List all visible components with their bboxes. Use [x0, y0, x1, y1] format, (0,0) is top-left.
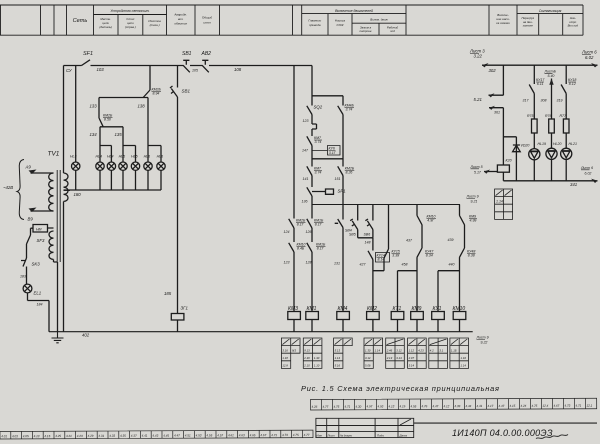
wire EL1 bottom [28, 293, 50, 332]
svg-text:4.55: 4.55 [206, 433, 212, 437]
contact SQ2 [307, 106, 312, 115]
svg-text:180: 180 [74, 192, 82, 197]
svg-text:4.26: 4.26 [311, 405, 317, 409]
resistor R75 [532, 119, 538, 133]
svg-text:HL20: HL20 [553, 142, 562, 146]
svg-text:1.30: 1.30 [365, 349, 371, 353]
svg-text:3.22: 3.22 [474, 54, 483, 59]
wire vertical B [312, 66, 317, 312]
wire H4 [312, 158, 343, 160]
svg-text:Сеть: Сеть [73, 18, 88, 24]
svg-text:1.1Б: 1.1Б [451, 349, 457, 353]
svg-text:2.46: 2.46 [386, 349, 393, 353]
svg-text:4.44: 4.44 [465, 404, 471, 408]
svg-text:439: 439 [448, 238, 454, 242]
LED branch 3 [565, 65, 567, 181]
wire 5.21 stub [489, 65, 504, 95]
svg-text:308: 308 [541, 99, 547, 103]
svg-text:9.21: 9.21 [471, 199, 478, 203]
svg-text:5.06: 5.06 [365, 364, 371, 368]
svg-text:КМ1: КМ1 [307, 306, 317, 312]
diode VD20 [503, 137, 516, 181]
wire KT1 link [398, 271, 418, 312]
svg-text:136: 136 [302, 200, 308, 204]
svg-text:341: 341 [570, 182, 578, 187]
svg-text:4.15: 4.15 [44, 434, 50, 438]
wire number strip left [0, 430, 313, 439]
lamp HL6 [119, 162, 127, 170]
svg-text:КМ10: КМ10 [453, 306, 466, 312]
svg-text:4.05: 4.05 [23, 434, 29, 438]
svg-text:3.14: 3.14 [409, 364, 415, 368]
svg-text:123: 123 [284, 261, 290, 265]
svg-text:1.14: 1.14 [461, 364, 467, 368]
svg-text:183: 183 [20, 275, 26, 279]
svg-text:317: 317 [523, 99, 530, 103]
svg-text:3.38: 3.38 [392, 254, 399, 258]
svg-text:КМ2: КМ2 [367, 306, 377, 312]
wire H1 [99, 97, 148, 99]
grid KT1 [386, 338, 405, 368]
svg-text:1.12: 1.12 [409, 349, 415, 353]
svg-text:Лист 5: Лист 5 [470, 165, 483, 169]
svg-text:105: 105 [192, 69, 198, 73]
grid KM1 [303, 338, 322, 368]
svg-text:Лист: Лист [327, 433, 336, 437]
svg-text:Вкл.ход: Вкл.ход [568, 24, 579, 28]
svg-text:108: 108 [234, 67, 242, 72]
contact SK3 [21, 258, 27, 284]
relay coil K20 [497, 165, 509, 172]
fuse FU1 [171, 314, 184, 321]
svg-text:8.1Г: 8.1Г [315, 223, 323, 227]
svg-text:3.74: 3.74 [346, 108, 353, 112]
svg-text:К20: К20 [506, 159, 512, 163]
wire KU1 link [438, 271, 460, 312]
svg-text:Сигнализация: Сигнализация [539, 9, 562, 13]
svg-text:4.2: 4.2 [430, 349, 434, 353]
svg-text:1.14: 1.14 [335, 356, 341, 360]
pushbutton SB2 [202, 60, 209, 72]
svg-text:Рис. 1.5 Схема электрическая: Рис. 1.5 Схема электрическая принципиаль… [301, 384, 500, 393]
svg-text:КТ1: КТ1 [393, 306, 402, 312]
svg-text:8.1Г: 8.1Г [297, 223, 305, 227]
wire SB merge [358, 238, 373, 312]
transformer TV1 [57, 170, 60, 262]
svg-text:4.65: 4.65 [250, 433, 256, 437]
wire SB5 branch [357, 205, 359, 238]
svg-text:141: 141 [303, 177, 309, 181]
svg-text:4.03: 4.03 [12, 434, 18, 438]
svg-text:361: 361 [494, 111, 500, 115]
svg-text:138: 138 [138, 104, 146, 109]
svg-text:4.23: 4.23 [77, 434, 83, 438]
svg-text:SF1: SF1 [83, 51, 93, 57]
svg-text:437: 437 [406, 239, 413, 243]
svg-text:4.75: 4.75 [333, 405, 339, 409]
svg-text:обмоток: обмоток [174, 22, 187, 26]
grid KM2 [364, 338, 383, 368]
svg-text:3.14: 3.14 [365, 356, 371, 360]
svg-text:SB1: SB1 [182, 51, 192, 57]
svg-text:~42В: ~42В [3, 185, 13, 190]
svg-text:126: 126 [306, 230, 312, 234]
svg-text:1.18: 1.18 [282, 356, 288, 360]
svg-text:са смазки: са смазки [496, 21, 510, 25]
svg-text:(справ.): (справ.) [125, 25, 136, 29]
svg-text:4.41: 4.41 [142, 434, 148, 438]
wire right top line [482, 64, 598, 66]
svg-text:4.67: 4.67 [553, 404, 559, 408]
svg-text:1И140П 04.0.00.000ЭЗ: 1И140П 04.0.00.000ЭЗ [452, 428, 553, 438]
svg-text:4.47: 4.47 [498, 404, 504, 408]
svg-text:8.38: 8.38 [468, 254, 475, 258]
svg-text:133: 133 [90, 104, 98, 109]
contact KM2B-8.1 [289, 219, 294, 228]
lamp HL4 [96, 162, 104, 170]
svg-text:4.45: 4.45 [163, 434, 169, 438]
coil KM4 [337, 312, 350, 320]
contact KM1B-8.1b [307, 243, 312, 252]
contact KM7b [307, 166, 312, 175]
svg-text:ход: ход [389, 29, 395, 33]
header table [0, 5, 583, 35]
wire drop to TV1 secondary [63, 66, 65, 174]
svg-text:4.43: 4.43 [152, 434, 158, 438]
svg-text:4.21: 4.21 [66, 434, 72, 438]
box NM [31, 225, 54, 236]
svg-text:6.02: 6.02 [585, 55, 594, 60]
svg-text:Дата: Дата [399, 433, 408, 437]
svg-text:6.11: 6.11 [537, 82, 544, 86]
lamp HL7 [131, 162, 139, 170]
svg-text:3.12: 3.12 [396, 349, 402, 353]
wire secondary bottom drop [63, 202, 65, 332]
svg-text:427: 427 [360, 263, 367, 267]
svg-text:3.16: 3.16 [282, 349, 288, 353]
svg-text:103: 103 [97, 67, 105, 72]
svg-text:302: 302 [489, 68, 497, 73]
svg-text:4.61: 4.61 [228, 433, 234, 437]
grid KU1 [429, 338, 448, 368]
svg-text:185: 185 [164, 291, 172, 296]
wire KM9 branch [460, 205, 465, 312]
wire lamp bridges [100, 127, 111, 162]
svg-text:EL1: EL1 [34, 291, 42, 296]
svg-text:HL4: HL4 [107, 155, 114, 159]
svg-text:4.63: 4.63 [239, 433, 245, 437]
svg-text:Лист 9: Лист 9 [466, 195, 479, 199]
svg-text:SB1: SB1 [182, 89, 191, 94]
svg-text:4.51: 4.51 [185, 433, 191, 437]
svg-text:4.57: 4.57 [217, 433, 223, 437]
svg-text:5.21: 5.21 [474, 97, 483, 102]
svg-text:4.53: 4.53 [196, 433, 202, 437]
svg-text:R76: R76 [545, 114, 552, 118]
svg-text:3.1Г: 3.1Г [329, 151, 337, 155]
svg-text:4.73: 4.73 [564, 404, 570, 408]
LED HL19 [529, 149, 540, 160]
wire H2 [100, 126, 123, 128]
svg-text:Подп.: Подп. [377, 433, 385, 437]
svg-text:4.71: 4.71 [271, 433, 277, 437]
LED branch 2 [551, 79, 553, 181]
wire mid bus [312, 204, 460, 206]
wire KM10 branch [417, 205, 422, 312]
boxed label KU14 [376, 253, 390, 263]
svg-text:В9: В9 [28, 217, 34, 222]
svg-text:8.26: 8.26 [346, 171, 353, 175]
svg-text:5.16: 5.16 [335, 364, 341, 368]
pushbutton SB6 [365, 219, 373, 230]
svg-text:4.24: 4.24 [520, 404, 526, 408]
contact KM4B-3.74 [338, 106, 343, 115]
resistor R76 [549, 119, 555, 133]
svg-text:стоп: стоп [203, 21, 211, 25]
svg-text:HL4: HL4 [96, 155, 103, 159]
coil KU1 [432, 312, 445, 320]
svg-text:КМ9: КМ9 [412, 306, 422, 312]
svg-text:4.99: 4.99 [470, 219, 477, 223]
svg-text:4.76: 4.76 [421, 404, 427, 408]
wire H3 [312, 95, 343, 97]
svg-text:SF3: SF3 [37, 238, 45, 243]
grid KM3 [281, 338, 300, 368]
svg-text:124: 124 [284, 230, 290, 234]
svg-text:2.13: 2.13 [386, 356, 393, 360]
svg-text:8.14: 8.14 [378, 258, 385, 262]
LED HL20 [546, 148, 557, 159]
wire right bottom line [503, 180, 597, 182]
svg-text:4.77: 4.77 [304, 433, 310, 437]
svg-text:3.74: 3.74 [315, 171, 322, 175]
svg-text:SK3: SK3 [32, 262, 41, 267]
coil KT1 [391, 312, 404, 320]
svg-text:8.94: 8.94 [153, 92, 160, 96]
svg-text:4.75: 4.75 [293, 433, 299, 437]
svg-text:1.16: 1.16 [461, 356, 467, 360]
svg-text:HL19: HL19 [538, 142, 547, 146]
contact KU17 [529, 85, 534, 94]
svg-text:4.71: 4.71 [575, 404, 581, 408]
svg-text:4.97: 4.97 [366, 405, 372, 409]
svg-text:4.13: 4.13 [388, 404, 394, 408]
pushbutton SB5 [350, 219, 358, 230]
svg-text:1.30: 1.30 [314, 356, 320, 360]
wire lamp bus [64, 170, 162, 190]
svg-text:4.47: 4.47 [174, 434, 180, 438]
svg-text:2.07: 2.07 [408, 356, 415, 360]
wire SB1 fuse branch [177, 66, 179, 332]
svg-text:(деталь): (деталь) [99, 25, 112, 29]
svg-text:4.12: 4.12 [443, 404, 449, 408]
svg-text:4.37: 4.37 [131, 434, 137, 438]
svg-text:СОЖ: СОЖ [336, 23, 343, 27]
LED branch 1 [533, 65, 535, 181]
coil KM9 [411, 312, 424, 320]
svg-text:3.14: 3.14 [396, 356, 402, 360]
svg-text:1.14: 1.14 [375, 349, 381, 353]
svg-text:А9: А9 [25, 165, 32, 170]
svg-text:привода: привода [309, 23, 321, 27]
svg-text:4.23: 4.23 [418, 349, 424, 353]
svg-text:АB2: АB2 [201, 51, 212, 57]
contact SB4 [335, 219, 343, 228]
svg-text:12.4: 12.4 [542, 404, 548, 408]
svg-text:R77: R77 [560, 114, 568, 118]
svg-text:8.34: 8.34 [426, 254, 433, 258]
svg-text:4.15: 4.15 [509, 404, 515, 408]
resistor R77 [563, 119, 569, 133]
svg-text:12.8: 12.8 [282, 364, 288, 368]
svg-text:4.30: 4.30 [355, 405, 361, 409]
svg-text:SP1: SP1 [338, 189, 347, 194]
contact usage grids under coils [281, 338, 468, 368]
brace 42V [17, 160, 24, 220]
svg-text:184: 184 [37, 303, 43, 307]
svg-text:SB5: SB5 [349, 233, 356, 237]
breaker SF3 [27, 235, 31, 258]
contact SB1 [170, 86, 178, 97]
wire 361 feed [489, 108, 503, 165]
svg-text:ЛистБ: ЛистБ [544, 70, 557, 74]
svg-text:135: 135 [115, 132, 123, 137]
contact table K20 [495, 189, 513, 219]
svg-text:131: 131 [334, 262, 340, 266]
svg-text:ЗГ1: ЗГ1 [181, 306, 189, 311]
svg-text:вкл.: вкл. [178, 17, 184, 21]
svg-text:4.41: 4.41 [476, 404, 482, 408]
svg-text:4.67: 4.67 [260, 433, 266, 437]
svg-text:147: 147 [302, 149, 309, 153]
svg-text:4.71: 4.71 [344, 405, 350, 409]
svg-text:Изм: Изм [317, 433, 322, 437]
svg-text:4.77: 4.77 [322, 405, 328, 409]
svg-text:9.13: 9.13 [304, 349, 310, 353]
lamp HL3 [72, 162, 80, 170]
svg-text:R75: R75 [527, 114, 534, 118]
wire drop to HL3 [75, 66, 77, 163]
grid KM9 [408, 338, 427, 368]
svg-text:5.17: 5.17 [474, 171, 482, 175]
svg-text:Аварийн.: Аварийн. [173, 13, 187, 17]
wire primary terminals A9 B9 [31, 173, 54, 211]
svg-text:НМ: НМ [36, 228, 42, 232]
svg-text:4.75: 4.75 [531, 404, 537, 408]
svg-text:6.02: 6.02 [585, 172, 592, 176]
grid KM10 [450, 338, 469, 368]
wire seal branch KU15 [373, 205, 389, 271]
svg-text:КМ3: КМ3 [288, 306, 298, 312]
contact KM1B-8.1 [307, 219, 312, 228]
svg-text:HL5: HL5 [131, 155, 138, 159]
svg-text:8.1Г: 8.1Г [317, 247, 325, 251]
svg-text:151: 151 [335, 177, 341, 181]
svg-text:4.47: 4.47 [432, 404, 438, 408]
ground [52, 332, 64, 343]
svg-text:SB6: SB6 [364, 233, 371, 237]
pushbutton SB1 [183, 60, 190, 72]
svg-text:9.22: 9.22 [481, 341, 488, 345]
wire top bus [64, 65, 313, 67]
LED HL21 [561, 148, 572, 159]
title block [316, 418, 597, 437]
svg-text:1.14: 1.14 [496, 200, 503, 204]
svg-text:8.50: 8.50 [104, 118, 111, 122]
contact KM10-8.4 [289, 243, 294, 252]
wire secondary tap to lamp bus [64, 189, 71, 191]
coil KM10 [453, 312, 466, 320]
coil KM3 [288, 312, 301, 320]
contact KM2B-8.50 [99, 98, 103, 127]
svg-text:4.55: 4.55 [410, 404, 416, 408]
svg-text:458: 458 [402, 263, 408, 267]
lamp HL8 [144, 162, 152, 170]
wire number strip right [310, 398, 596, 410]
svg-text:4.31: 4.31 [98, 434, 104, 438]
svg-text:4.01: 4.01 [1, 434, 7, 438]
svg-text:Общий: Общий [202, 16, 213, 20]
svg-text:TV1: TV1 [48, 151, 60, 158]
coil KM2 [367, 312, 380, 320]
svg-text:4.35: 4.35 [120, 434, 126, 438]
svg-text:HL3: HL3 [70, 155, 77, 159]
svg-text:148: 148 [365, 241, 371, 245]
contact KU18 [561, 85, 566, 94]
coil KM1 [306, 312, 319, 320]
wire K20 to sheet5 [484, 171, 497, 173]
lamp HL9 [157, 162, 165, 170]
wire drop KM2B branch [149, 66, 151, 91]
svg-text:134: 134 [90, 132, 98, 137]
svg-text:Вспом. движ: Вспом. движ [370, 17, 388, 21]
bottom strips [0, 338, 597, 439]
svg-text:12.1: 12.1 [586, 404, 592, 408]
svg-text:4.73: 4.73 [282, 433, 288, 437]
svg-text:9(3: 9(3 [292, 349, 296, 353]
svg-text:402: 402 [82, 333, 90, 338]
svg-text:гателе: гателе [523, 24, 534, 28]
lamp HL5 [107, 162, 115, 170]
svg-text:HL21: HL21 [569, 142, 578, 146]
svg-text:HL6: HL6 [144, 155, 151, 159]
boxed label KU6 [312, 146, 340, 156]
svg-text:4.25: 4.25 [55, 434, 61, 438]
svg-text:319: 319 [557, 99, 563, 103]
svg-text:патроне: патроне [360, 29, 372, 33]
svg-text:VD20: VD20 [521, 144, 530, 148]
svg-text:2.10: 2.10 [303, 364, 310, 368]
contact KM7-3.74 [307, 136, 312, 145]
svg-text:Лист 6: Лист 6 [580, 166, 593, 170]
svg-text:HL5: HL5 [119, 155, 126, 159]
svg-text:(техн.): (техн.) [150, 23, 160, 27]
svg-text:4.33: 4.33 [109, 434, 115, 438]
svg-text:4.29: 4.29 [88, 434, 94, 438]
svg-text:КМ4: КМ4 [338, 306, 348, 312]
svg-text:4.17: 4.17 [487, 404, 493, 408]
wire bottom bus [49, 331, 473, 333]
svg-text:8.4Б: 8.4Б [297, 247, 305, 251]
svg-text:4.39: 4.39 [454, 404, 460, 408]
svg-text:№ докум.: № докум. [340, 433, 353, 437]
contact KM2B [143, 90, 150, 98]
svg-text:4.19: 4.19 [399, 404, 405, 408]
wire SB6 branch [372, 205, 374, 238]
wire vertical A [293, 66, 295, 312]
contact SP1 [307, 187, 334, 196]
svg-text:1.10: 1.10 [314, 364, 320, 368]
